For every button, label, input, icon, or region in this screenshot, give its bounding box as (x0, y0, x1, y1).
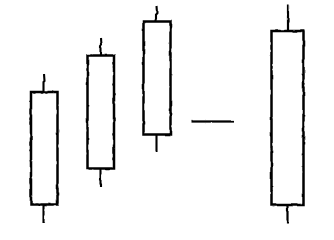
candle 3 upper wick (156, 6, 157, 21)
candle 4 upper wick (287, 5, 289, 31)
candle 2 lower wick (99, 169, 101, 187)
doji dash (192, 120, 235, 122)
candle 1 upper wick (44, 74, 45, 91)
candle 3 lower wick (155, 135, 157, 152)
candle 3 body (144, 22, 171, 135)
candle 1 body (31, 92, 58, 205)
candle 4 body (272, 31, 304, 205)
candle 2 upper wick (101, 38, 102, 55)
candle 2 body (88, 56, 115, 169)
candle 4 lower wick (286, 206, 288, 224)
candle 1 lower wick (42, 205, 44, 223)
